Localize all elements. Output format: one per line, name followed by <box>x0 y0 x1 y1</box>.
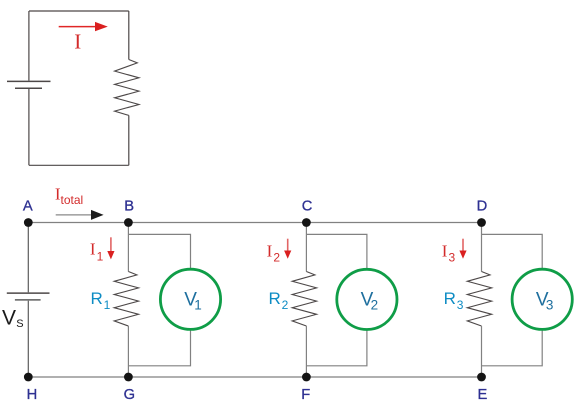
resistor R2 <box>292 272 316 327</box>
svg-text:1: 1 <box>104 298 111 312</box>
svg-text:1: 1 <box>97 250 104 264</box>
label R2 <box>269 289 289 312</box>
node E <box>477 373 486 382</box>
svg-text:3: 3 <box>546 298 554 313</box>
wire resistor R2 to F <box>305 326 307 377</box>
label I1 <box>90 240 104 264</box>
voltmeter V1 loop top wire <box>128 234 190 269</box>
wire right side lower <box>128 115 130 165</box>
branch 3: wire D down to resistor <box>481 223 483 272</box>
wire left vertical upper (A to battery) <box>27 223 29 293</box>
svg-text:3: 3 <box>449 251 456 265</box>
voltmeter V1 loop bottom wire <box>128 330 190 366</box>
current arrow Itotal <box>56 210 104 220</box>
resistor R3 <box>467 272 491 327</box>
battery VS <box>7 293 50 300</box>
svg-text:H: H <box>27 387 38 403</box>
svg-text:I: I <box>74 29 81 53</box>
svg-text:1: 1 <box>194 298 202 313</box>
svg-text:I: I <box>267 242 273 261</box>
svg-text:2: 2 <box>282 298 289 312</box>
current arrow I3 <box>459 239 466 259</box>
svg-text:3: 3 <box>457 298 464 312</box>
label Itotal <box>55 185 83 208</box>
svg-text:I: I <box>442 242 448 261</box>
voltmeter V1 circle <box>160 269 220 329</box>
current arrow I1 <box>107 237 114 259</box>
current arrow I (top circuit) <box>59 22 108 31</box>
svg-text:G: G <box>124 387 135 403</box>
wire right side upper <box>128 11 130 60</box>
svg-text:S: S <box>16 318 23 330</box>
node G <box>124 373 133 382</box>
voltmeter V2 circle <box>337 269 397 329</box>
node D <box>477 218 486 227</box>
label I3 <box>442 242 456 265</box>
branch 2: wire C down to resistor <box>305 223 307 272</box>
wire bottom bus H-G-F-E <box>28 376 481 378</box>
wire top bus A-B-C-D <box>28 222 481 224</box>
wire left side upper <box>28 11 30 81</box>
svg-text:R: R <box>444 289 456 308</box>
voltmeter V3 loop top wire <box>482 234 543 269</box>
label VS <box>2 306 24 329</box>
wire resistor R1 to G <box>127 326 129 377</box>
voltmeter V2 loop bottom wire <box>306 330 367 366</box>
svg-text:D: D <box>477 198 488 214</box>
wire bottom side <box>29 164 129 166</box>
svg-text:R: R <box>91 289 103 308</box>
svg-text:total: total <box>61 193 84 207</box>
voltmeter V3 loop bottom wire <box>482 330 543 366</box>
wire left side lower <box>28 89 30 165</box>
label V1 <box>184 290 202 313</box>
resistor (top circuit) <box>115 60 139 116</box>
node F <box>302 373 311 382</box>
svg-text:E: E <box>478 387 488 403</box>
svg-text:2: 2 <box>273 251 280 265</box>
branch 1: wire B down to resistor <box>127 223 129 272</box>
current arrow I2 <box>284 239 291 259</box>
label V3 <box>536 290 554 313</box>
voltmeter V2 loop top wire <box>306 234 367 269</box>
svg-text:F: F <box>301 387 310 403</box>
node A <box>24 218 33 227</box>
svg-text:B: B <box>124 198 134 214</box>
node B <box>124 218 133 227</box>
wire resistor R3 to E <box>481 326 483 377</box>
svg-text:I: I <box>90 240 96 259</box>
label V2 <box>361 290 379 313</box>
svg-text:R: R <box>269 289 281 308</box>
svg-text:V: V <box>2 306 16 329</box>
label R3 <box>444 289 464 312</box>
node C <box>302 218 311 227</box>
label I2 <box>267 242 281 265</box>
svg-text:C: C <box>302 198 313 214</box>
voltmeter V3 circle <box>512 269 572 329</box>
wire left vertical lower (battery to H) <box>27 301 29 377</box>
wire top side <box>29 10 129 12</box>
svg-text:A: A <box>23 198 33 214</box>
node H <box>24 373 33 382</box>
label R1 <box>91 289 111 312</box>
battery (top circuit) <box>7 81 51 88</box>
svg-text:2: 2 <box>371 298 379 313</box>
resistor R1 <box>114 272 138 327</box>
